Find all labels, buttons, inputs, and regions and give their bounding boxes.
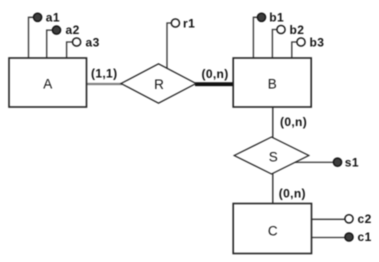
wire B to S: [272, 107, 274, 140]
attribute a2 wire: [47, 30, 52, 58]
attribute c1 wire: [312, 237, 345, 239]
svg-text:a3: a3: [86, 35, 100, 49]
svg-text:B: B: [268, 77, 277, 92]
entity C: [233, 204, 311, 254]
attribute a1: [34, 13, 42, 21]
wire R to B (thick): [195, 82, 233, 86]
attribute r1: [171, 19, 179, 27]
svg-text:r1: r1: [183, 16, 195, 30]
svg-text:C: C: [268, 224, 278, 239]
wire S to C: [272, 172, 274, 204]
svg-text:b3: b3: [310, 35, 325, 49]
attribute r1 wire: [167, 23, 171, 69]
relationship R: [121, 64, 196, 103]
attribute b1 wire: [253, 17, 257, 58]
svg-text:S: S: [269, 149, 278, 164]
relationship S: [234, 137, 309, 174]
attribute s1 wire: [292, 161, 333, 163]
svg-text:a1: a1: [46, 11, 60, 25]
attribute c1: [345, 233, 353, 241]
attribute a2: [52, 26, 60, 34]
svg-text:(1,1): (1,1): [91, 67, 117, 81]
svg-text:R: R: [154, 77, 164, 92]
attribute a1 wire: [29, 17, 35, 58]
attribute b3: [297, 38, 305, 46]
svg-text:A: A: [43, 77, 52, 92]
svg-text:b2: b2: [290, 23, 305, 37]
attribute s1: [333, 158, 341, 166]
entity B: [233, 58, 311, 107]
svg-text:c2: c2: [358, 212, 372, 226]
wire A to R: [87, 83, 122, 85]
attribute b1: [257, 13, 265, 21]
svg-text:(0,n): (0,n): [280, 115, 307, 129]
svg-text:(0,n): (0,n): [202, 67, 229, 81]
attribute c2 wire: [312, 218, 345, 220]
entity A: [9, 58, 87, 107]
attribute c2: [345, 215, 353, 223]
attribute a3 wire: [67, 42, 72, 58]
svg-text:a2: a2: [66, 23, 80, 37]
svg-text:(0,n): (0,n): [279, 187, 306, 201]
svg-text:b1: b1: [269, 11, 284, 25]
attribute b2: [277, 25, 285, 33]
attribute b2 wire: [272, 30, 276, 59]
attribute b3 wire: [292, 42, 297, 58]
svg-text:c1: c1: [358, 230, 372, 244]
svg-text:s1: s1: [345, 156, 359, 170]
attribute a3: [73, 38, 81, 46]
